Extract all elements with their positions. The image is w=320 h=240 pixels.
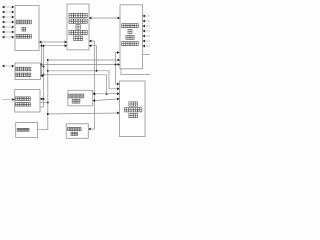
wire: vertical x115.5 from output block stub y52.5 down to bus block y84	[116, 51, 120, 85]
junction dot x94.5/H-94	[94, 93, 96, 95]
wire: drive line 7 into output block right edge	[143, 45, 151, 48]
wire: control block right stub y45.7, down x96.5 to H-70.8	[89, 44, 97, 71]
block: function select / setting circuit (功能选用设置电路)	[15, 90, 40, 113]
junction dot x106.5/H-94	[106, 93, 108, 95]
block: output buffer & display input circuit (输出缓冲及显示输入电路)	[120, 5, 143, 69]
wire: bidirectional sensor line 3 at left of detection block	[2, 16, 14, 19]
wire: H-94 oscillator to bus block (double arrow)	[93, 92, 120, 95]
wire: bidirectional sensor line 2 at left of detection block	[2, 11, 14, 14]
wire: stub from output block right edge to image edge (y=54.4)	[143, 53, 151, 55]
wire: bidirectional sensor line 6 at left of detection block	[2, 31, 14, 34]
wire: horizontal H-70.8, down at x109, arrow into bus block (y=89)	[48, 71, 120, 90]
junction blob x115.5/H-64.5	[115, 64, 117, 66]
block: system oscillator circuit (系统振荡电路)	[68, 90, 93, 106]
wire: bidirectional sensor line 1 at left of detection block	[2, 6, 14, 9]
wire: from output block bottom-left corner down and right to image edge	[121, 69, 150, 75]
block: bus interface control circuit (总线接口控制电路)	[120, 81, 146, 137]
wire: bidirectional sensor line 5 at left of detection block	[2, 26, 14, 29]
wire: drive line 4 into output block right edge	[143, 30, 151, 33]
wire: control block right stub y41, down x94.5, into reset block	[88, 40, 94, 131]
wire: bidirectional bus between control and output blocks (y=18)	[89, 17, 120, 20]
block: voltage regulator circuit (稳压电路)	[16, 123, 38, 138]
junction dot V2/H2	[43, 45, 45, 47]
junction dot x96.5/H-70.8	[96, 70, 98, 72]
wire: drive line 3 into output block right edge	[143, 25, 151, 28]
wire: long horizontal y114->112.9 from V3 to bus block	[48, 112, 120, 115]
junction dot V3 top	[47, 59, 49, 61]
wire: bidirectional line at left of mains-detection block	[2, 65, 14, 68]
block: sensing interface & detection circuit (感应接口及检测电路)	[15, 6, 39, 51]
wire: drive line 5 into output block right edge	[143, 35, 151, 38]
wire: arrow into control block left edge (y=45.7)	[44, 44, 68, 47]
wire: drive line 1 into output block right edge	[143, 15, 151, 18]
wire: vertical bus V3 (x=47.8) down to regulator block wire	[37, 60, 47, 130]
block: mains detection / disinfection circuit (电解检测消毒电路)	[15, 63, 41, 80]
wire: drive line 6 into output block right edge	[143, 40, 151, 43]
junction dot V3/function-select stub2	[47, 102, 49, 104]
block: power-on reset circuit (上电复位电路)	[66, 124, 88, 139]
wire: horizontal H-60.5 from V3 to output block (arrow in)	[48, 59, 120, 62]
wire: horizontal H-64.7 from V1 to output block (arrow in)	[42, 63, 121, 66]
junction dot V1/H-64.5	[41, 64, 43, 66]
wire: stub from mains-detection block right edge (y=66.5)	[41, 66, 44, 68]
wire: drive line 2 into output block right edge	[143, 20, 151, 23]
wire: H-100 oscillator to bus block (double arrow, slight slope)	[93, 98, 120, 103]
wire: bidirectional sensor line 4 at left of detection block	[2, 21, 14, 24]
wire: bidirectional bus between detection and control blocks (y=42)	[39, 41, 67, 44]
wire: horizontal H-74.8, down at x106.5 to H-94	[44, 75, 107, 94]
junction dot V3/long horizontal	[47, 113, 49, 115]
junction dot V1/H2	[41, 45, 43, 47]
wire: vertical bus V1 (x=41.5), arrow into mains-detection block	[41, 42, 44, 77]
wire: arrow into function-select block right edge (y=99)	[40, 98, 44, 101]
wire: vertical bus V2 (x=43.5) ending into function-select block	[40, 46, 44, 107]
junction dot V3/H-70.8	[47, 70, 49, 72]
wire: stub from function-select block right edge (y=102.5)	[40, 102, 48, 104]
block: timing/counting, key-scan & function control circuit (计时计数按键扫描及功能控制电路)	[67, 4, 89, 50]
junction dot V2/function-select stub	[43, 98, 45, 100]
junction dot V2/H-74.8	[43, 74, 45, 76]
wire: input arrow into function-select block left edge	[2, 98, 15, 101]
junction dot V2/mains-detect stub	[43, 66, 45, 68]
wire: bidirectional sensor line 7 at left of detection block	[2, 36, 14, 39]
